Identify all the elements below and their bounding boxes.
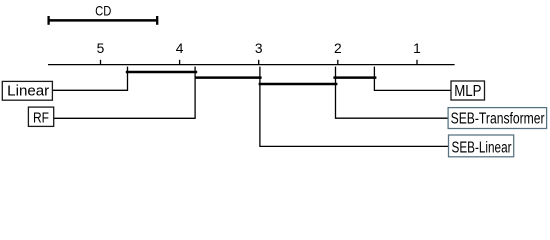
Linear label box xyxy=(2,81,52,100)
CD ruler left cap xyxy=(47,16,49,25)
svg-text:Linear: Linear xyxy=(7,83,49,99)
tick 3 xyxy=(258,60,260,65)
tick 4 xyxy=(179,60,181,65)
svg-text:2: 2 xyxy=(334,41,342,56)
MLP descender xyxy=(374,67,451,91)
SEB-Linear descender xyxy=(260,67,449,147)
MLP label box xyxy=(451,81,485,100)
svg-text:RF: RF xyxy=(33,109,49,126)
RF descender xyxy=(54,67,195,119)
SEB-Transformer descender xyxy=(336,67,449,119)
svg-text:SEB-Linear: SEB-Linear xyxy=(452,140,512,157)
CD ruler right cap xyxy=(156,16,158,25)
tick 5 xyxy=(100,60,102,65)
SEB-Transformer label box xyxy=(448,108,546,129)
axis line xyxy=(48,64,455,66)
clique bar 2 (RF-SEB-Linear) xyxy=(195,76,262,79)
Linear descender xyxy=(52,67,127,91)
clique bar 4 (SEB-Transformer-MLP) xyxy=(333,76,376,79)
svg-text:3: 3 xyxy=(255,41,263,56)
clique bar 3 (SEB-Linear-SEB-Transformer) xyxy=(259,83,338,86)
svg-text:MLP: MLP xyxy=(454,83,481,100)
SEB-Linear label box xyxy=(449,135,514,157)
tick 2 xyxy=(337,60,339,65)
tick 1 xyxy=(416,60,418,65)
svg-text:5: 5 xyxy=(97,41,105,56)
svg-text:SEB-Transformer: SEB-Transformer xyxy=(451,110,545,127)
svg-text:CD: CD xyxy=(95,2,111,18)
clique bar 1 (Linear-RF) xyxy=(126,71,197,74)
svg-text:1: 1 xyxy=(413,41,421,56)
CD ruler line xyxy=(49,19,158,22)
svg-text:4: 4 xyxy=(176,41,184,56)
RF label box xyxy=(28,107,53,126)
